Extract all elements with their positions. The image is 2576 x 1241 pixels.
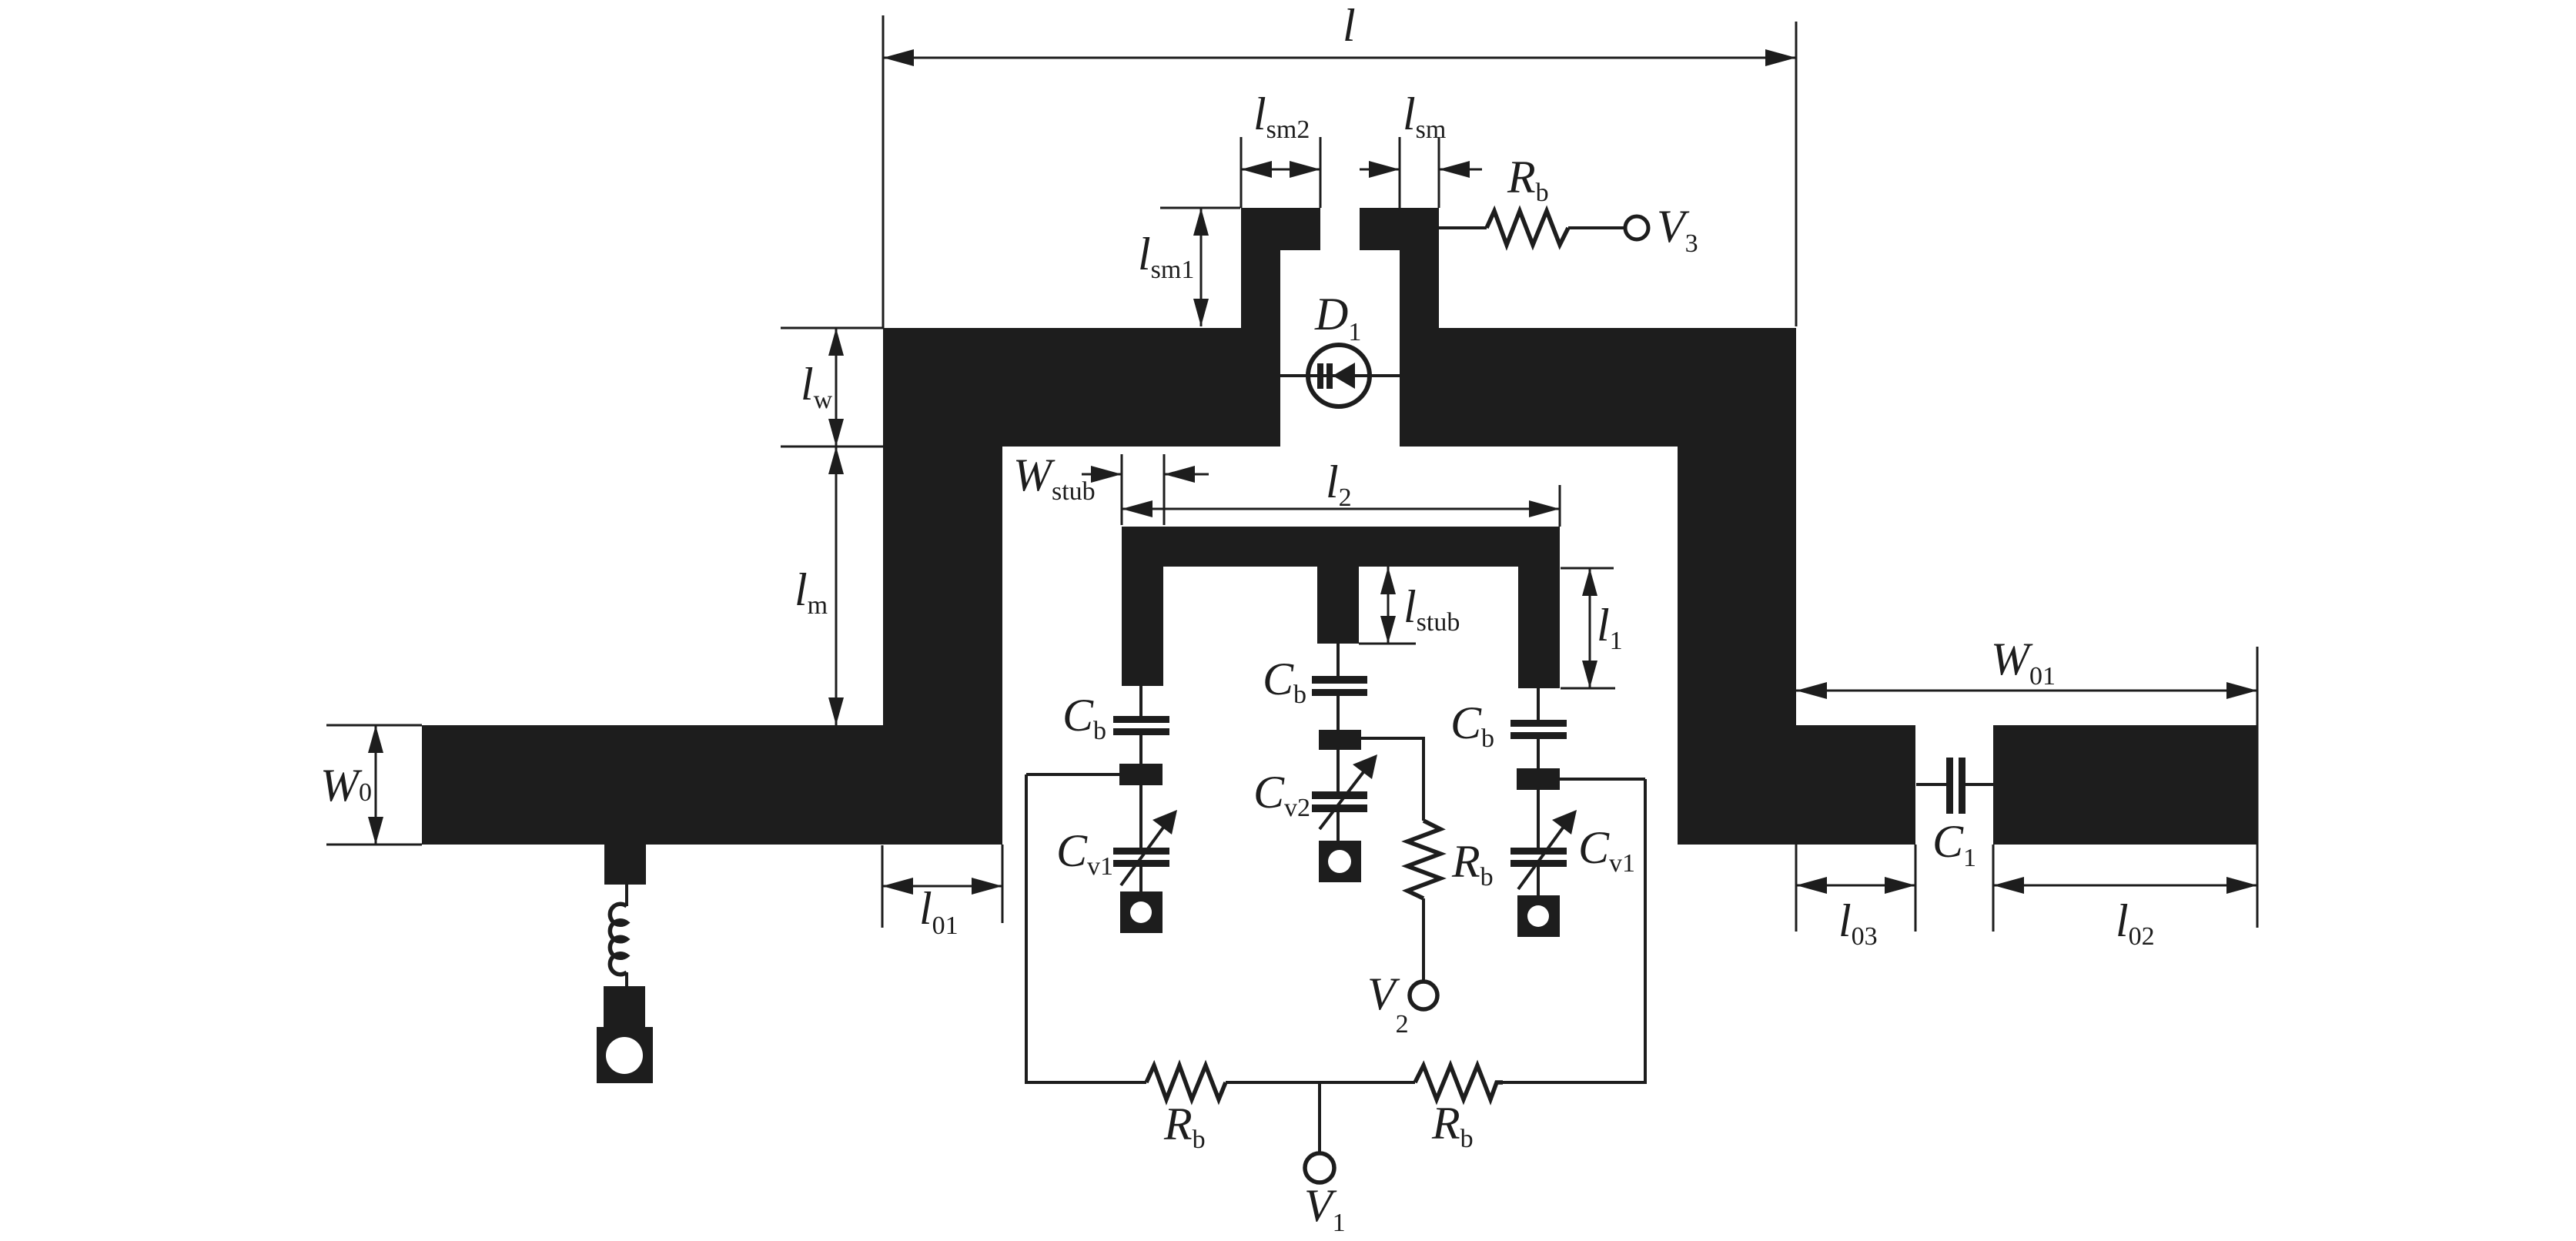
microstrip top bar left half [883,328,1280,447]
dimension l ticks [882,15,885,328]
T-network left stub [1122,567,1163,686]
wire right pad to bias frame [1560,778,1645,781]
dimension W01 right tick [2257,647,2259,928]
dimension l1 arrow [1589,568,1591,688]
top-right matching stub stem [1400,249,1439,329]
resistor Rb (top) [1487,211,1568,245]
dimension Wstub arrows [1082,473,1122,476]
wire Cb to pad (left) [1139,735,1142,765]
varactor Cv1 (left) [1113,848,1169,855]
wire Cv2 to via (middle) [1337,812,1340,842]
feed line bias pad [604,845,646,885]
dimension lsm2 arrow [1241,169,1320,171]
wire from inductor to connector pad [625,972,628,988]
diode D1 cathode bars [1317,363,1323,389]
diode D1 internal wire [1308,374,1370,377]
dimension lstub arrow [1387,567,1390,644]
wire left stub to Cb [1139,686,1142,716]
diode D1 anode triangle [1333,363,1355,389]
wire left bias frame vertical [1025,774,1028,1084]
top-left matching stub stem lsm1 [1241,249,1280,329]
T-network middle stub [1317,567,1359,644]
dimension W0 ticks [326,724,422,727]
dimension lsm arrows [1360,169,1400,171]
wire Cv1 to via (left) [1139,867,1142,893]
ground via square (right chain) [1517,895,1560,937]
dimension l03 arrow [1796,885,1915,887]
T-network right stub [1518,567,1560,688]
dimension lw ticks [781,327,883,329]
ground via square (middle chain) [1319,841,1361,882]
dimension l arrow [883,57,1796,59]
dimension lw arrow [835,328,838,447]
microstrip feed line W0 [422,725,1002,845]
microstrip left vertical line lm [883,447,1002,727]
dimension W01 arrow [1796,690,2257,692]
capacitor C1 bars [1946,758,1953,814]
dimension l02 arrow [1993,885,2257,887]
dimension l02 left tick [1992,845,1995,932]
microstrip right vertical line [1678,447,1796,845]
dimension l03 ticks [1795,845,1798,932]
dimension l2 arrow [1122,508,1560,510]
top-left matching stub cap lsm2 [1241,208,1320,250]
top-right matching stub cap [1360,208,1439,250]
wire Cb to pad (middle) [1337,696,1340,731]
wire left pad to bias frame [1026,773,1119,776]
dimension lsm ticks [1399,137,1401,208]
T-network top bar l2 [1122,527,1560,567]
dimension lsm1 arrow [1200,208,1203,326]
output line segment l02 [1993,725,2257,845]
wire middle stub to Cb [1337,644,1340,676]
diode D1 circle [1308,345,1370,406]
resistor Rb (bottom right) [1415,1065,1503,1099]
wire bottom bias rail right [1503,1081,1647,1084]
wire right bias frame vertical [1644,779,1647,1084]
terminal V2 circle [1410,982,1437,1009]
terminal V3 circle [1625,216,1648,239]
dimension lsm1 tick [1160,207,1240,209]
wire Cv1 to via (right) [1537,867,1540,897]
bias pad (left chain) [1119,764,1163,785]
dimension W0 arrow [375,725,377,845]
wire C1 left lead [1916,783,1946,786]
wire pad to Cv1 (left) [1139,785,1142,848]
wire pad to Cv1 (right) [1537,790,1540,848]
dimension lm arrow [835,447,838,725]
wire bottom bias rail left [1025,1081,1146,1084]
ground via square (left chain) [1120,891,1163,933]
capacitor Cb (right) [1510,720,1567,727]
bias pad (right chain) [1517,768,1560,790]
wire Cb to pad (right) [1537,739,1540,770]
inductor coil [610,904,627,975]
dimension Wstub ticks [1121,454,1123,525]
wire right stub to Cb [1537,688,1540,720]
bias pad (middle chain) [1319,730,1361,750]
wire C1 right lead [1965,783,1993,786]
dimension lsm2 ticks [1240,137,1243,208]
connector pad [604,986,645,1027]
wire diode D1 left lead [1280,374,1308,377]
wire from feed pad to inductor [625,885,628,906]
microstrip top bar right half [1400,328,1796,447]
capacitor Cb (left) [1113,716,1169,723]
dimension l1 ticks [1561,567,1614,570]
varactor Cv1 (right) [1510,848,1567,855]
terminal V1 circle [1305,1153,1334,1182]
resistor Rb (middle vertical) [1407,821,1440,898]
wire diode D1 right lead [1370,374,1400,377]
dimension l01 ticks [882,845,884,928]
wire bottom bias rail middle [1226,1081,1415,1084]
wire Rb to V2 [1422,898,1425,982]
capacitor Cb (middle) [1312,676,1367,684]
dimension l2 right tick [1559,485,1561,527]
resistor Rb (bottom left) [1146,1065,1226,1099]
dimension lstub tick [1359,643,1416,645]
output line segment l03 [1796,725,1915,845]
svg-text:l: l [1343,0,1356,51]
varactor Cv2 [1312,791,1367,799]
dimension l01 arrow [882,885,1002,888]
wire top stub to Rb [1439,226,1487,229]
wire middle pad branch to Rb [1361,738,1423,821]
ground via square (feed) [597,1027,653,1083]
wire pad to Cv2 [1337,750,1340,791]
wire V1 stem [1318,1082,1321,1153]
wire Rb to V3 [1568,226,1625,229]
